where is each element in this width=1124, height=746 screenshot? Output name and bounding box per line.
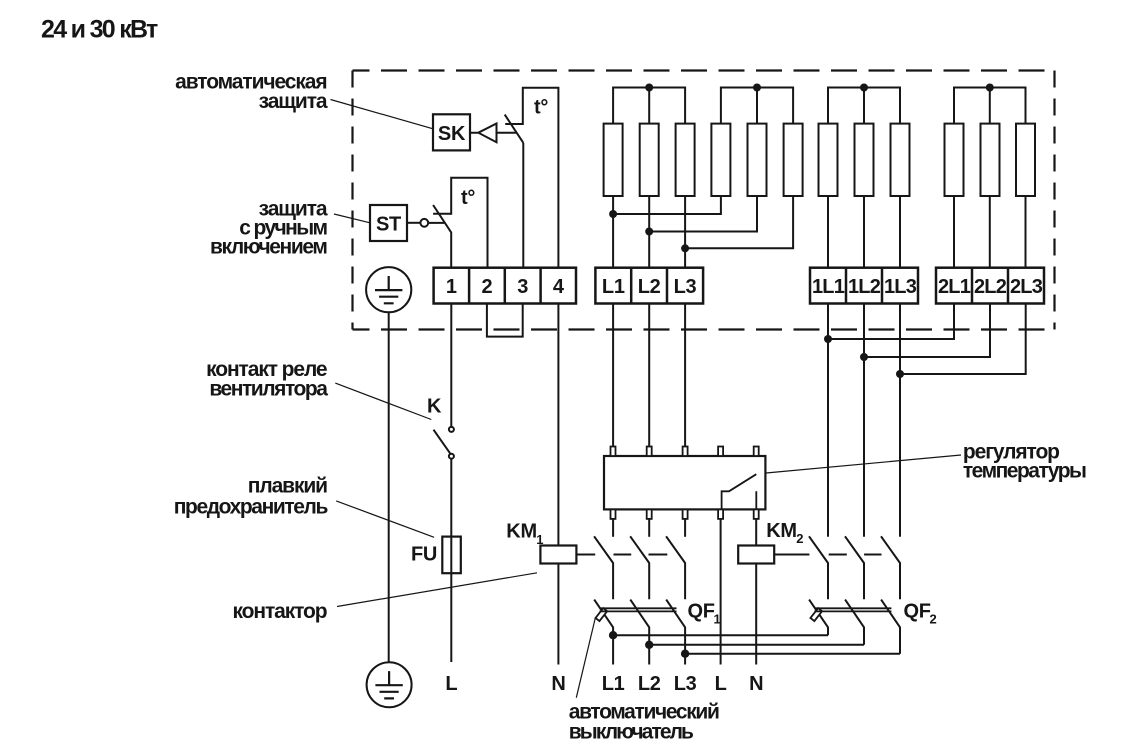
regulator internal switch bbox=[722, 474, 757, 509]
terminal digits 1 2 3 4 bbox=[446, 276, 565, 298]
svg-text:1L2: 1L2 bbox=[848, 276, 881, 298]
ST thermal tick bbox=[433, 213, 451, 215]
QF2 linkage double bar bbox=[814, 608, 891, 611]
KM2 main contact pole 2 bbox=[845, 536, 864, 599]
star bus group 1 bbox=[613, 88, 685, 124]
junction dot L2 tap bbox=[645, 228, 653, 236]
supply bus L3 to QF2 pole3 bbox=[685, 653, 900, 655]
branch 2L1 bbox=[828, 304, 954, 340]
heater element E10 bbox=[945, 124, 964, 196]
wire terminal 4 (N) down to KM1 coil bbox=[557, 304, 559, 546]
wire: SK blade to terminal 3 bbox=[522, 143, 524, 268]
wire ST to reset button bbox=[407, 222, 420, 224]
regulator pins bottom bbox=[611, 509, 759, 519]
leader to ST bbox=[334, 214, 370, 223]
star bus group 3 bbox=[828, 88, 900, 124]
junction dot bus L1 bbox=[609, 631, 617, 639]
junction dot group3 bbox=[860, 84, 868, 92]
wire KM1 coil to N output bbox=[557, 564, 559, 665]
branch 2L3 bbox=[900, 304, 1026, 375]
manual reset circle bbox=[420, 219, 428, 227]
svg-text:L3: L3 bbox=[674, 276, 697, 298]
svg-text:L1: L1 bbox=[602, 276, 625, 298]
terminal strip L1 L2 L3 bbox=[595, 268, 703, 304]
wire regulator pin L down to supply bbox=[720, 519, 722, 665]
svg-text:t°: t° bbox=[461, 187, 475, 209]
heater element E5 bbox=[748, 124, 767, 196]
svg-text:1L3: 1L3 bbox=[884, 276, 917, 298]
svg-text:2L3: 2L3 bbox=[1010, 276, 1043, 298]
svg-text:L1: L1 bbox=[602, 673, 625, 695]
t° sensor box (SK) bbox=[505, 87, 558, 268]
wire 1L1 feeder down to KM2 bbox=[827, 304, 829, 537]
svg-text:24 и 30 кВт: 24 и 30 кВт bbox=[41, 16, 158, 44]
U-link terminal 2 to terminal 3 bbox=[487, 304, 523, 337]
supply bus L2 to QF2 pole2 bbox=[649, 644, 864, 646]
wire regulator L2 to KM1 contact bbox=[648, 519, 650, 537]
contactor coil KM2 bbox=[738, 546, 774, 564]
junction dot bus L2 bbox=[645, 641, 653, 649]
breaker QF1 pole 1 bbox=[594, 600, 613, 665]
label QF2 bbox=[904, 601, 937, 627]
junction dot 1L1/2L1 bbox=[824, 335, 832, 343]
star bus group 2 bbox=[721, 88, 793, 124]
svg-text:защита: защита bbox=[259, 90, 328, 113]
t° sensor box (ST) with wire to terminal 2 bbox=[450, 177, 487, 268]
svg-text:температуры: температуры bbox=[963, 460, 1086, 483]
svg-text:L: L bbox=[445, 673, 457, 695]
KM2 main contact pole 1 bbox=[809, 536, 828, 599]
leader to KM1 coil bbox=[337, 573, 537, 607]
relay contact K bbox=[434, 427, 454, 459]
heater element E7 bbox=[819, 124, 838, 196]
regulator pins top bbox=[611, 447, 759, 457]
heater element E4 bbox=[711, 124, 730, 196]
fuse FU bbox=[442, 537, 461, 574]
KM1 main contact pole 2 bbox=[630, 536, 649, 599]
terminal strip 2L1 2L2 2L3 bbox=[936, 268, 1044, 304]
wire terminal L1 to regulator bbox=[612, 304, 614, 447]
wire K to fuse bbox=[450, 459, 452, 537]
svg-text:плавкий: плавкий bbox=[248, 475, 327, 498]
svg-text:контактор: контактор bbox=[233, 600, 327, 623]
wire regulator L1 to KM1 contact bbox=[612, 519, 614, 537]
svg-text:включением: включением bbox=[210, 235, 327, 258]
SK thermal contact blade bbox=[505, 115, 524, 143]
wire L1 phase to parallel element E4 bbox=[613, 196, 721, 268]
heater element E8 bbox=[855, 124, 874, 196]
svg-text:SK: SK bbox=[438, 123, 466, 145]
contactor coil KM1 bbox=[540, 546, 576, 564]
breaker QF1 pole 3 bbox=[666, 600, 685, 665]
svg-text:L3: L3 bbox=[674, 673, 697, 695]
svg-text:FU: FU bbox=[411, 544, 437, 566]
heater element E6 bbox=[784, 124, 803, 196]
svg-text:2: 2 bbox=[930, 611, 937, 626]
svg-text:2L1: 2L1 bbox=[938, 276, 971, 298]
heater element E3 bbox=[676, 124, 695, 196]
svg-text:KM: KM bbox=[506, 521, 537, 543]
wire 1L2 feeder down to KM2 bbox=[863, 304, 865, 537]
svg-text:выключатель: выключатель bbox=[569, 720, 694, 743]
junction dot 1L2/2L2 bbox=[860, 353, 868, 361]
wire regulator pin N down through KM2 coil bbox=[755, 519, 757, 665]
breaker QF1 pole 2 bbox=[630, 600, 649, 665]
wire reset circle to blade bbox=[428, 222, 444, 224]
bottom supply labels bbox=[445, 673, 763, 695]
heater element E2 bbox=[640, 124, 659, 196]
QF2 handle bbox=[810, 608, 822, 621]
heater element E9 bbox=[891, 124, 910, 196]
wires elements E10 E11 E12 to terminals 2L1 2L2 2L3 bbox=[954, 196, 1026, 268]
QF1 handle bbox=[596, 608, 608, 621]
svg-text:KM: KM bbox=[766, 520, 797, 542]
svg-text:1: 1 bbox=[714, 611, 721, 626]
svg-text:2L2: 2L2 bbox=[974, 276, 1007, 298]
KM1 main contact pole 1 bbox=[594, 536, 613, 599]
KM1 main contact pole 3 bbox=[666, 536, 685, 599]
svg-text:L2: L2 bbox=[638, 276, 661, 298]
label KM1 bbox=[506, 521, 543, 547]
terminal strip 1L1 1L2 1L3 bbox=[810, 268, 918, 304]
label KM2 bbox=[766, 520, 803, 546]
breaker QF2 pole 1 bbox=[809, 600, 828, 636]
QF1 linkage double bar bbox=[600, 608, 677, 611]
svg-text:QF: QF bbox=[904, 601, 931, 623]
junction dot group1 bbox=[645, 84, 653, 92]
leader to regulator box bbox=[766, 455, 961, 473]
wire terminal L2 to regulator bbox=[648, 304, 650, 447]
junction dot group2 bbox=[753, 84, 761, 92]
svg-text:предохранитель: предохранитель bbox=[174, 495, 329, 518]
svg-text:2: 2 bbox=[796, 531, 803, 546]
wire L2 phase to parallel element E5 bbox=[649, 196, 757, 268]
SK box U1 bbox=[433, 114, 470, 150]
leader to SK bbox=[331, 100, 434, 129]
wire regulator L3 to KM1 contact bbox=[684, 519, 686, 537]
leader to FU bbox=[336, 501, 434, 537]
leader to QF1 handle bbox=[576, 618, 595, 698]
star bus group 4 bbox=[954, 88, 1026, 124]
KM2 main contact pole 3 bbox=[881, 536, 900, 599]
KM2 linkage dashed bbox=[775, 554, 882, 556]
svg-text:1: 1 bbox=[446, 276, 457, 298]
ST contact blade and wire to terminal 1 bbox=[433, 205, 451, 268]
svg-text:t°: t° bbox=[534, 97, 548, 119]
wire terminal 1 down to K contact bbox=[450, 304, 452, 427]
svg-text:вентилятора: вентилятора bbox=[209, 378, 328, 401]
branch 2L2 bbox=[864, 304, 990, 358]
supply bus L1 to QF2 pole1 bbox=[613, 634, 828, 636]
label QF1 bbox=[688, 601, 721, 627]
wire terminal L3 to regulator bbox=[684, 304, 686, 447]
svg-text:4: 4 bbox=[553, 276, 565, 298]
wire L3 phase to parallel element E6 bbox=[685, 196, 793, 268]
terminal strip 1 2 3 4 bbox=[434, 268, 576, 304]
ground symbol bottom bbox=[367, 662, 412, 707]
triangle probe of SK bbox=[470, 124, 516, 143]
wire: top ground to bottom ground bbox=[388, 312, 390, 662]
wire 1L3 feeder down to KM2 bbox=[899, 304, 901, 537]
svg-text:L2: L2 bbox=[638, 673, 661, 695]
wires elements E7 E8 E9 to terminals 1L1 1L2 1L3 bbox=[828, 196, 900, 268]
junction dot L1 tap bbox=[609, 210, 617, 218]
heater element E12 bbox=[1016, 124, 1035, 196]
breaker QF2 pole 3 bbox=[881, 600, 900, 654]
junction dot bus L3 bbox=[681, 650, 689, 658]
svg-text:K: K bbox=[427, 396, 442, 418]
wire fuse to L output bbox=[450, 573, 452, 662]
ST box bbox=[370, 205, 407, 241]
svg-text:ST: ST bbox=[376, 214, 401, 236]
svg-text:N: N bbox=[749, 673, 763, 695]
regulator box bbox=[604, 456, 765, 509]
heater element E1 bbox=[604, 124, 623, 196]
leader to K contact bbox=[335, 383, 431, 419]
svg-text:1L1: 1L1 bbox=[812, 276, 845, 298]
heater element E11 bbox=[981, 124, 1000, 196]
junction dot group4 bbox=[986, 84, 994, 92]
breaker QF2 pole 2 bbox=[845, 600, 864, 645]
svg-text:L: L bbox=[715, 673, 727, 695]
ground symbol top bbox=[366, 267, 411, 312]
junction dot 1L3/2L3 bbox=[896, 370, 904, 378]
dashed enclosure box bbox=[353, 71, 1055, 330]
svg-text:3: 3 bbox=[517, 276, 528, 298]
svg-text:QF: QF bbox=[688, 601, 715, 623]
svg-text:N: N bbox=[551, 673, 565, 695]
KM1 linkage dashed bbox=[577, 554, 667, 556]
svg-text:1: 1 bbox=[536, 532, 543, 547]
junction dot L3 tap bbox=[681, 244, 689, 252]
svg-text:2: 2 bbox=[481, 276, 492, 298]
